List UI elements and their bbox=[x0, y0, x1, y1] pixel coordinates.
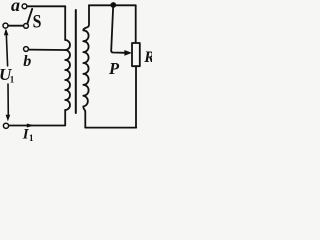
current I1 arrowhead bbox=[27, 124, 35, 128]
switch S pivot terminal bbox=[3, 23, 8, 28]
resistor R body bbox=[132, 43, 140, 66]
wire switch pivot to blade hinge bbox=[8, 25, 23, 27]
inductor L1 primary winding bbox=[65, 40, 70, 110]
svg-text:1: 1 bbox=[29, 133, 34, 143]
wire primary bottom lead bbox=[9, 110, 65, 126]
wire b tap to coil bbox=[29, 49, 66, 51]
wire right-loop top bbox=[89, 4, 136, 6]
switch S blade bbox=[27, 9, 32, 24]
wire right-loop right vertical bbox=[135, 5, 137, 43]
svg-text:1: 1 bbox=[10, 75, 15, 85]
terminal bottom-left bbox=[3, 123, 8, 128]
U1 voltage arrow shaft bbox=[6, 31, 7, 66]
inductor L2 bottom lead bbox=[83, 107, 85, 128]
terminal b bbox=[24, 47, 29, 52]
svg-text:b: b bbox=[23, 53, 31, 70]
wire wiper from junction down bbox=[111, 6, 113, 51]
svg-text:S: S bbox=[33, 11, 42, 32]
transformer core bbox=[75, 10, 77, 113]
terminal a bbox=[22, 4, 27, 9]
wire wiper horizontal bbox=[111, 51, 126, 53]
switch blade hinge circle bbox=[24, 24, 29, 29]
svg-text:a: a bbox=[11, 0, 20, 15]
inductor L2 secondary winding top lead bbox=[83, 5, 89, 30]
wire resistor bottom lead bbox=[135, 66, 137, 127]
junction node dot bbox=[110, 2, 116, 8]
wiper arrowhead P bbox=[124, 50, 132, 56]
svg-text:P: P bbox=[108, 59, 120, 78]
wire right-loop bottom bbox=[85, 127, 136, 129]
wire left-loop right vertical into primary coil bbox=[64, 6, 66, 40]
U1 voltage arrow top head bbox=[4, 28, 9, 35]
svg-text:R: R bbox=[143, 49, 152, 66]
U1 voltage arrow bottom head bbox=[6, 115, 11, 122]
inductor L2 secondary winding bbox=[83, 30, 88, 106]
wire top-left from a to corner bbox=[27, 5, 65, 7]
